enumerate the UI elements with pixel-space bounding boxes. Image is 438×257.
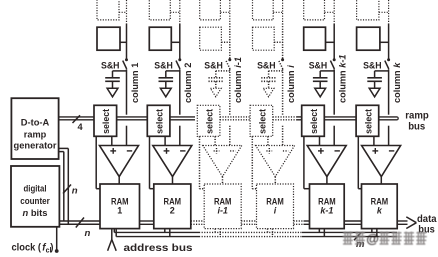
svg-text:generator: generator (14, 140, 57, 150)
pixel PX1 (97, 27, 127, 50)
svg-text:S&H: S&H (257, 60, 276, 71)
svg-text:2: 2 (170, 206, 175, 216)
svg-text:select: select (363, 109, 373, 134)
pixel (row above, repeated) column 5 (304, 0, 335, 20)
wire RAM 2 to address bus (165, 229, 170, 237)
address bus (114, 229, 397, 237)
pixel (row above, repeated) column 4 (253, 0, 283, 20)
data bus (140, 217, 417, 229)
wire select 6 to RAM (left bypass) (358, 136, 361, 188)
RAM 2 (154, 184, 191, 229)
svg-text:i-1: i-1 (217, 206, 228, 216)
column 1 vertical bus wire (mid) (126, 69, 128, 145)
svg-text:column 1: column 1 (130, 63, 140, 103)
pixel PX5 (304, 27, 335, 50)
bus width slash 4 (DAC to ramp bus) (73, 115, 84, 132)
sample capacitor C1 (105, 71, 126, 88)
wire select 5 to comparator + input (319, 136, 321, 145)
ramp bus (59, 117, 399, 120)
comparator A5 (307, 146, 346, 177)
column 5 vertical bus wire (mid) (333, 69, 335, 145)
wire comparator 4 output to RAM (274, 177, 276, 184)
pixel (row above, repeated) column 1 (97, 0, 127, 20)
column 3 vertical bus wire (mid) (229, 69, 231, 145)
wire comparator 6 output to RAM (380, 177, 382, 184)
wire counter to data bus (59, 221, 100, 224)
sample capacitor C6 (367, 71, 388, 88)
svg-text:clock (: clock ( (12, 243, 42, 254)
column 2 vertical bus wire (mid) (179, 69, 181, 145)
wire RAM k to address bus (372, 229, 377, 237)
wire select 1 to comparator + input (111, 136, 113, 145)
RAM 1 (100, 184, 140, 229)
sample capacitor C2 (159, 71, 180, 88)
svg-text:S&H: S&H (309, 60, 328, 71)
svg-text:4: 4 (78, 122, 84, 132)
svg-text:S&H: S&H (204, 60, 223, 71)
analog ground arrow column 4 (263, 88, 274, 97)
svg-text:S&H: S&H (363, 60, 382, 71)
select block SEL3 (197, 105, 220, 136)
svg-text:select: select (309, 109, 319, 134)
comparator A3 (203, 146, 242, 177)
wire select 4 to RAM (left bypass) (252, 136, 256, 188)
column 2 vertical bus wire (top) (179, 0, 181, 59)
pixel (row above, repeated) column 6 (357, 0, 389, 20)
column 6 vertical bus wire (top) (388, 0, 390, 59)
RAM i (257, 184, 294, 229)
RAM i-1 (204, 184, 241, 229)
comparator A1 (100, 146, 139, 177)
comparator A4 (256, 146, 295, 177)
select block SEL4 (250, 105, 273, 136)
svg-text:column 2: column 2 (183, 63, 193, 103)
watermark (343, 231, 427, 246)
column 3 vertical bus wire (top) (229, 0, 231, 59)
select block SEL5 (302, 105, 325, 136)
svg-text:k-1: k-1 (320, 206, 333, 216)
analog ground arrow column 2 (160, 88, 171, 97)
column 6 vertical bus wire (mid) (388, 69, 390, 145)
wire select 2 to comparator + input (164, 136, 166, 145)
bus width slash n (counter to RAM data) (76, 218, 91, 240)
svg-text:select: select (101, 109, 111, 134)
svg-text:ramp: ramp (24, 130, 47, 140)
pixel PX6 (357, 27, 389, 50)
RAM k (362, 184, 398, 229)
S&H switch SW6 (363, 58, 390, 71)
analog ground arrow column 3 (210, 88, 221, 97)
wire select 4 to comparator + input (267, 136, 269, 145)
wire RAM k-1 to address bus (319, 229, 324, 237)
svg-text:ramp: ramp (405, 110, 429, 121)
wire RAM i to address bus (268, 229, 273, 237)
digital counter U2 (11, 166, 59, 227)
wire comparator 5 output to RAM (326, 177, 328, 184)
clock input node (12, 227, 59, 255)
wire select 5 to RAM (left bypass) (304, 136, 310, 188)
wire comparator 1 output to RAM (118, 177, 120, 184)
column 1 vertical bus wire (top) (126, 0, 128, 59)
sample capacitor C4 (261, 71, 282, 88)
wire select 3 to RAM (left bypass) (200, 136, 205, 188)
svg-text:address bus: address bus (124, 243, 193, 254)
RAM k-1 (310, 184, 345, 229)
svg-text:select: select (257, 109, 267, 134)
S&H switch SW3 (204, 58, 231, 71)
analog ground arrow column 5 (315, 88, 326, 97)
address bus fan-in fork (108, 229, 117, 251)
svg-text:digital: digital (24, 184, 47, 194)
svg-text:): ) (50, 243, 53, 254)
pixel PX3 (200, 27, 230, 50)
analog ground arrow column 1 (107, 88, 118, 97)
svg-text:D-to-A: D-to-A (21, 117, 50, 127)
svg-text:column i-1: column i-1 (233, 57, 243, 103)
pixel (row above, repeated) column 2 (149, 0, 180, 20)
S&H switch SW5 (309, 58, 336, 71)
comparator A6 (362, 146, 401, 177)
column 4 vertical bus wire (mid) (282, 69, 284, 145)
wire counter to D-to-A (n-bit feedback bus) (59, 148, 69, 224)
sample capacitor C3 (209, 71, 230, 88)
pixel (row above, repeated) column 3 (200, 0, 230, 20)
wire comparator 3 output to RAM (222, 177, 224, 184)
data bus label (417, 214, 437, 235)
column 5 vertical bus wire (top) (333, 0, 335, 59)
select block SEL1 (94, 105, 117, 136)
svg-text:column k: column k (392, 62, 402, 103)
comparator A2 (153, 146, 192, 177)
svg-text:1: 1 (117, 206, 122, 216)
analog ground arrow column 6 (369, 88, 380, 97)
bus width slash m (address bus) (354, 233, 365, 251)
S&H switch SW4 (257, 58, 284, 71)
wire RAM i-1 to address bus (215, 229, 220, 237)
wire comparator 2 output to RAM (172, 177, 174, 184)
sample capacitor C5 (313, 71, 334, 88)
svg-text:n: n (72, 185, 78, 196)
select block SEL6 (356, 105, 379, 136)
svg-text:S&H: S&H (154, 60, 173, 71)
ramp bus label (405, 110, 429, 132)
pixel PX2 (149, 27, 180, 50)
select block SEL2 (147, 105, 170, 136)
svg-text:S&H: S&H (101, 60, 120, 71)
wire select 3 to comparator + input (214, 136, 216, 145)
svg-text:counter: counter (20, 196, 50, 206)
svg-text:column k-1: column k-1 (338, 54, 348, 103)
svg-text:column i: column i (286, 65, 296, 103)
svg-text:n bits: n bits (23, 208, 48, 218)
pixel PX4 (253, 27, 283, 50)
S&H switch SW1 (101, 58, 128, 71)
svg-text:select: select (205, 109, 215, 134)
column 4 vertical bus wire (top) (282, 0, 284, 59)
svg-text:@: @ (366, 231, 379, 246)
svg-text:bus: bus (408, 121, 425, 132)
wire select 1 to RAM (left bypass) (96, 136, 100, 188)
svg-text:select: select (155, 109, 165, 134)
wire select 6 to comparator + input (373, 136, 375, 145)
D-to-A ramp generator U1 (11, 98, 58, 159)
bus width slash n (counter to DAC) (63, 185, 78, 197)
S&H switch SW2 (154, 58, 181, 71)
svg-text:n: n (85, 228, 91, 239)
wire select 2 to RAM (left bypass) (150, 136, 154, 188)
